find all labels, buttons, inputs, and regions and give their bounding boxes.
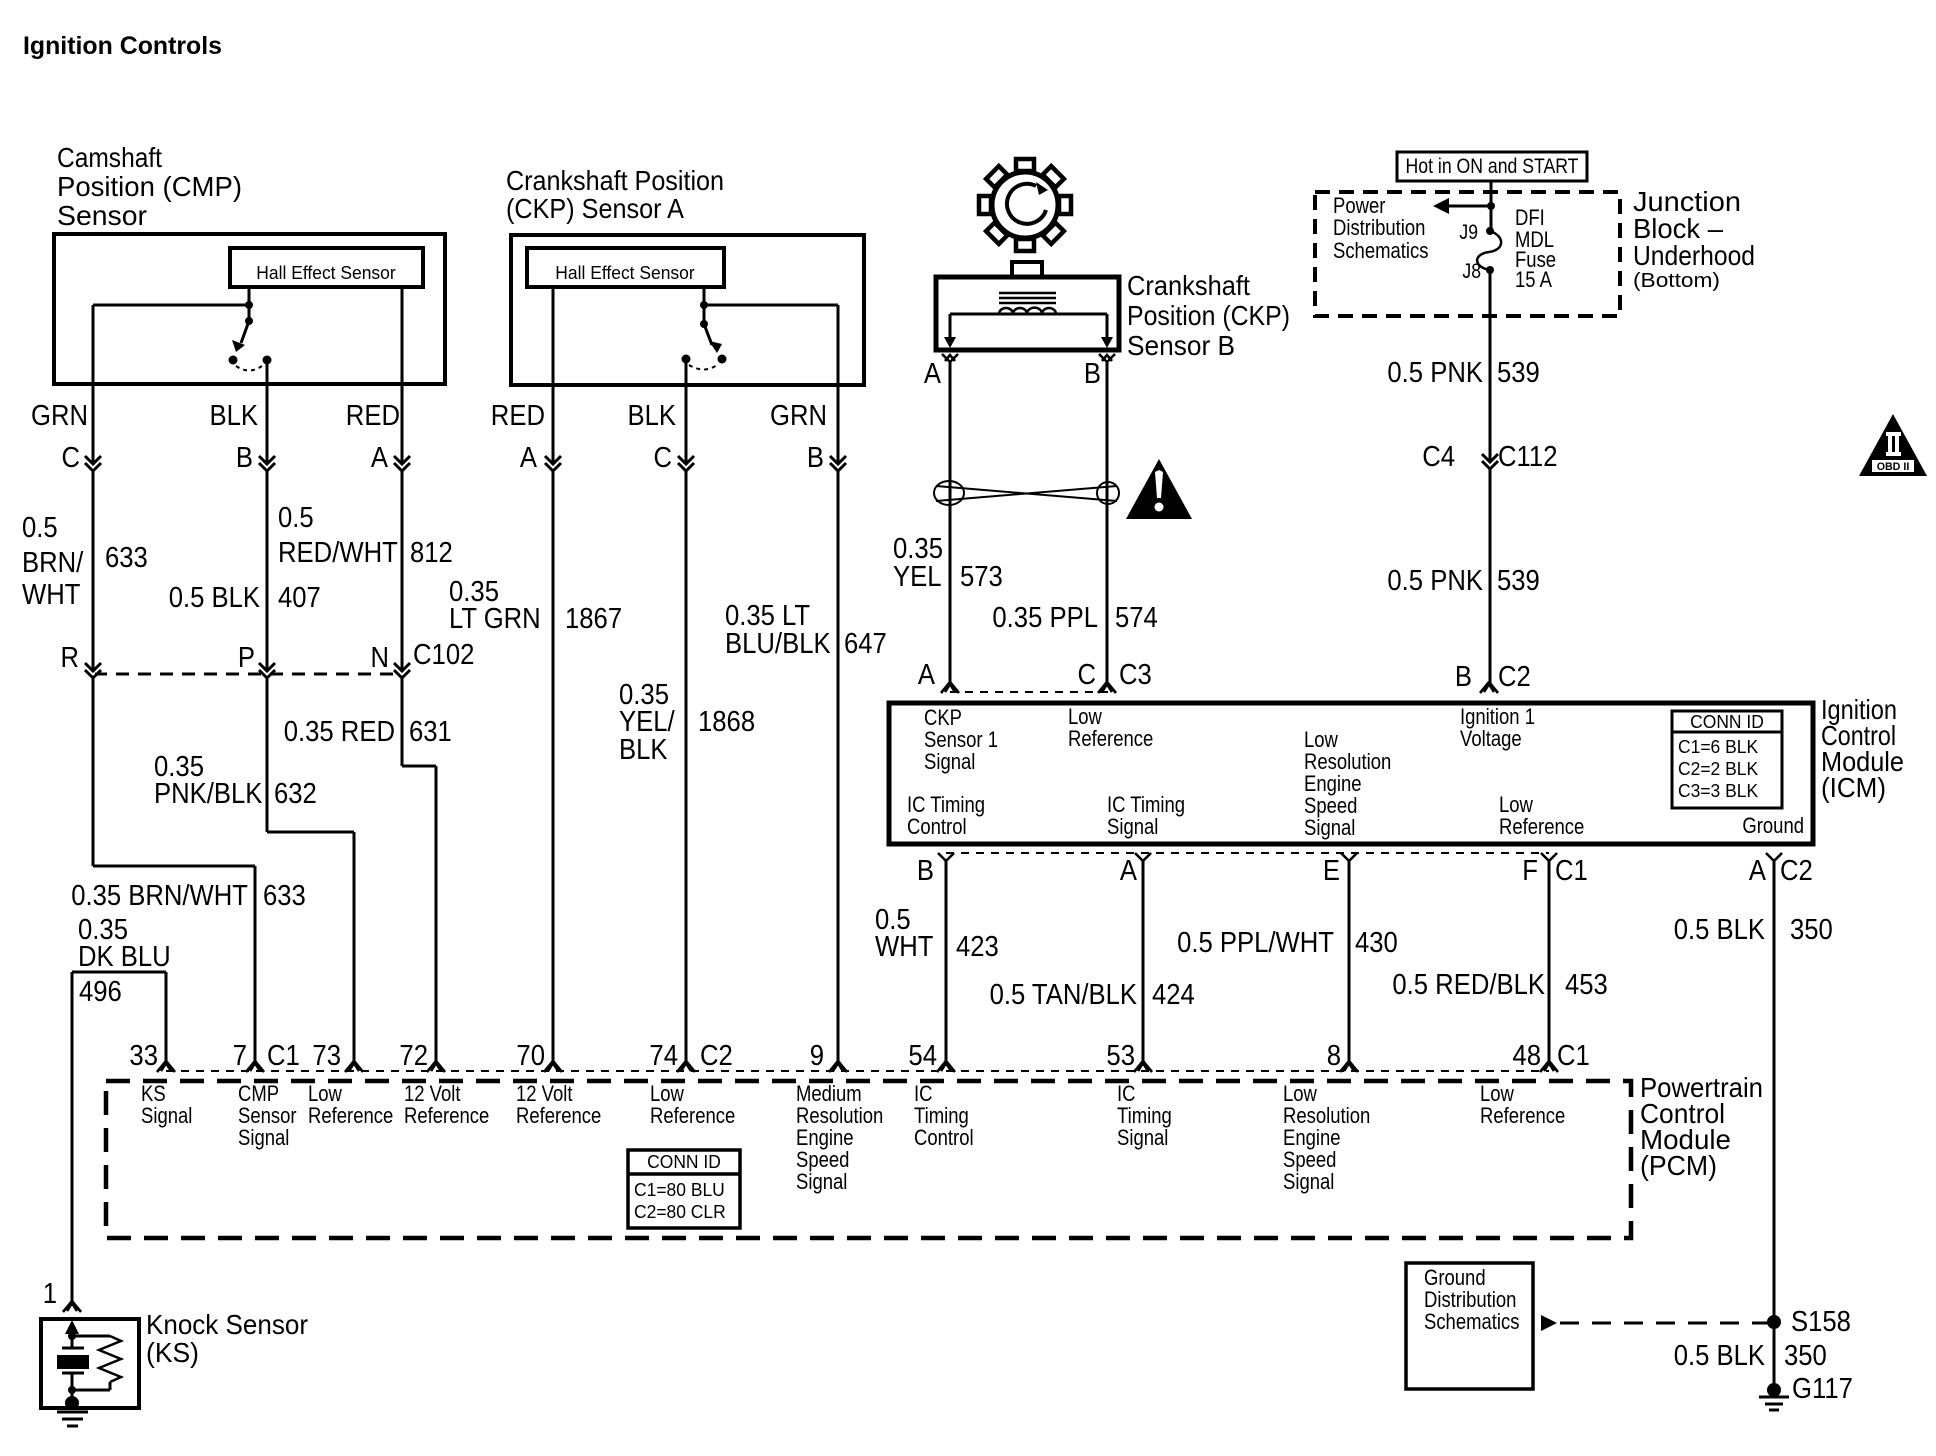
- svg-text:B: B: [917, 855, 934, 887]
- svg-text:A: A: [1749, 855, 1767, 887]
- svg-text:Reference: Reference: [516, 1103, 601, 1128]
- svg-text:C2: C2: [1498, 661, 1531, 693]
- svg-text:430: 430: [1355, 927, 1398, 959]
- svg-text:Hall Effect Sensor: Hall Effect Sensor: [555, 263, 694, 283]
- svg-text:0.5: 0.5: [278, 502, 314, 534]
- svg-text:C2=2 BLK: C2=2 BLK: [1678, 759, 1758, 779]
- svg-text:Reference: Reference: [404, 1103, 489, 1128]
- svg-text:0.5 TAN/BLK: 0.5 TAN/BLK: [990, 979, 1138, 1011]
- svg-text:Signal: Signal: [141, 1103, 192, 1128]
- svg-text:812: 812: [410, 537, 453, 569]
- svg-text:0.35 PPL: 0.35 PPL: [992, 602, 1098, 634]
- svg-text:CONN ID: CONN ID: [1690, 712, 1764, 732]
- svg-text:YEL: YEL: [893, 561, 942, 593]
- svg-text:632: 632: [274, 778, 317, 810]
- svg-text:C3=3 BLK: C3=3 BLK: [1678, 781, 1758, 801]
- svg-text:DK BLU: DK BLU: [78, 941, 171, 973]
- svg-text:BLK: BLK: [210, 400, 259, 432]
- svg-text:C2: C2: [700, 1040, 733, 1072]
- svg-text:0.35 RED: 0.35 RED: [284, 716, 395, 748]
- svg-text:Schematics: Schematics: [1333, 238, 1429, 263]
- svg-text:Signal: Signal: [1107, 814, 1158, 839]
- svg-text:J8: J8: [1462, 260, 1481, 283]
- svg-text:BLU/BLK: BLU/BLK: [725, 628, 831, 660]
- svg-text:0.5 PNK: 0.5 PNK: [1387, 357, 1483, 389]
- svg-text:0.5 BLK: 0.5 BLK: [1674, 1340, 1766, 1372]
- svg-text:Signal: Signal: [1304, 815, 1355, 840]
- svg-text:BLK: BLK: [628, 400, 677, 432]
- svg-text:Crankshaft: Crankshaft: [1127, 270, 1250, 301]
- svg-text:Reference: Reference: [1480, 1103, 1565, 1128]
- svg-text:WHT: WHT: [22, 579, 81, 611]
- svg-text:Camshaft: Camshaft: [57, 142, 162, 173]
- svg-text:Reference: Reference: [308, 1103, 393, 1128]
- svg-text:S158: S158: [1791, 1306, 1851, 1338]
- svg-text:R: R: [61, 642, 80, 674]
- svg-text:RED/WHT: RED/WHT: [278, 537, 398, 569]
- svg-text:Reference: Reference: [1068, 726, 1153, 751]
- svg-text:Sensor B: Sensor B: [1127, 330, 1235, 361]
- svg-text:574: 574: [1115, 602, 1158, 634]
- svg-text:E: E: [1323, 855, 1340, 887]
- svg-text:0.5: 0.5: [22, 512, 58, 544]
- svg-text:15 A: 15 A: [1515, 267, 1552, 292]
- svg-text:0.35 BRN/WHT: 0.35 BRN/WHT: [71, 880, 248, 912]
- svg-text:Ground: Ground: [1742, 813, 1804, 838]
- svg-text:C112: C112: [1498, 441, 1558, 473]
- svg-text:1867: 1867: [565, 603, 622, 635]
- svg-text:407: 407: [278, 582, 321, 614]
- svg-text:7: 7: [233, 1040, 247, 1072]
- svg-text:53: 53: [1106, 1040, 1135, 1072]
- svg-text:Signal: Signal: [796, 1169, 847, 1194]
- svg-text:Knock Sensor: Knock Sensor: [146, 1309, 308, 1340]
- svg-text:A: A: [520, 442, 538, 474]
- svg-text:B: B: [807, 442, 824, 474]
- svg-text:Underhood: Underhood: [1633, 240, 1755, 271]
- svg-text:C1: C1: [267, 1040, 300, 1072]
- svg-text:539: 539: [1497, 357, 1540, 389]
- svg-text:Position (CMP): Position (CMP): [57, 171, 242, 202]
- svg-text:(ICM): (ICM): [1821, 772, 1886, 803]
- svg-text:PNK/BLK: PNK/BLK: [154, 778, 263, 810]
- svg-text:54: 54: [908, 1040, 937, 1072]
- svg-text:Hall Effect Sensor: Hall Effect Sensor: [256, 263, 395, 283]
- svg-text:C3: C3: [1119, 659, 1152, 691]
- svg-text:C2=80 CLR: C2=80 CLR: [634, 1202, 726, 1222]
- svg-text:C1=6 BLK: C1=6 BLK: [1678, 737, 1758, 757]
- svg-text:0.5 BLK: 0.5 BLK: [1674, 914, 1766, 946]
- svg-text:0.5 PPL/WHT: 0.5 PPL/WHT: [1177, 927, 1334, 959]
- svg-text:Control: Control: [914, 1125, 974, 1150]
- svg-text:B: B: [1455, 661, 1472, 693]
- svg-text:73: 73: [312, 1040, 341, 1072]
- svg-text:Signal: Signal: [238, 1125, 289, 1150]
- svg-text:C: C: [1078, 659, 1097, 691]
- svg-text:(CKP) Sensor A: (CKP) Sensor A: [506, 193, 684, 224]
- svg-text:(Bottom): (Bottom): [1633, 270, 1720, 292]
- svg-text:70: 70: [516, 1040, 545, 1072]
- svg-text:GRN: GRN: [770, 400, 827, 432]
- svg-text:631: 631: [409, 716, 452, 748]
- svg-text:Schematics: Schematics: [1424, 1309, 1520, 1334]
- svg-text:B: B: [1084, 358, 1101, 390]
- svg-text:(KS): (KS): [146, 1337, 199, 1368]
- svg-text:Control: Control: [907, 814, 967, 839]
- svg-text:CONN ID: CONN ID: [647, 1152, 721, 1172]
- svg-text:B: B: [236, 442, 253, 474]
- svg-text:WHT: WHT: [875, 931, 934, 963]
- svg-text:Signal: Signal: [1283, 1169, 1334, 1194]
- svg-text:J9: J9: [1459, 221, 1478, 244]
- svg-text:350: 350: [1790, 914, 1833, 946]
- svg-text:A: A: [924, 358, 942, 390]
- svg-text:33: 33: [129, 1040, 158, 1072]
- svg-text:72: 72: [399, 1040, 428, 1072]
- svg-text:P: P: [238, 642, 255, 674]
- svg-text:C: C: [654, 442, 673, 474]
- svg-text:GRN: GRN: [31, 400, 88, 432]
- svg-text:1868: 1868: [698, 706, 755, 738]
- svg-text:C1: C1: [1557, 1040, 1590, 1072]
- svg-text:633: 633: [263, 880, 306, 912]
- svg-text:LT GRN: LT GRN: [449, 603, 541, 635]
- svg-text:C: C: [62, 442, 81, 474]
- svg-text:Sensor: Sensor: [57, 200, 147, 231]
- svg-text:9: 9: [810, 1040, 824, 1072]
- svg-text:C2: C2: [1780, 855, 1813, 887]
- svg-text:Voltage: Voltage: [1460, 726, 1522, 751]
- svg-text:647: 647: [844, 628, 887, 660]
- svg-text:Crankshaft Position: Crankshaft Position: [506, 165, 724, 196]
- svg-text:0.5 BLK: 0.5 BLK: [169, 582, 261, 614]
- svg-text:0.5 PNK: 0.5 PNK: [1387, 565, 1483, 597]
- svg-text:Position (CKP): Position (CKP): [1127, 300, 1290, 331]
- svg-text:633: 633: [105, 542, 148, 574]
- svg-text:A: A: [371, 442, 389, 474]
- svg-text:0.5 RED/BLK: 0.5 RED/BLK: [1392, 969, 1545, 1001]
- svg-text:OBD II: OBD II: [1877, 461, 1910, 473]
- svg-text:Signal: Signal: [1117, 1125, 1168, 1150]
- svg-text:C1: C1: [1555, 855, 1588, 887]
- svg-text:Ignition Controls: Ignition Controls: [23, 32, 222, 60]
- svg-text:G117: G117: [1792, 1373, 1853, 1405]
- svg-text:1: 1: [43, 1278, 57, 1310]
- svg-text:F: F: [1522, 855, 1538, 887]
- svg-text:573: 573: [960, 561, 1003, 593]
- svg-text:423: 423: [956, 931, 999, 963]
- svg-text:RED: RED: [346, 400, 400, 432]
- svg-text:BLK: BLK: [619, 734, 668, 766]
- svg-text:(PCM): (PCM): [1640, 1150, 1717, 1181]
- svg-text:C1=80 BLU: C1=80 BLU: [634, 1180, 725, 1200]
- svg-text:RED: RED: [491, 400, 545, 432]
- svg-text:A: A: [1120, 855, 1138, 887]
- svg-text:74: 74: [649, 1040, 678, 1072]
- svg-text:BRN/: BRN/: [22, 547, 84, 579]
- svg-text:A: A: [918, 659, 936, 691]
- svg-text:N: N: [371, 642, 390, 674]
- svg-text:453: 453: [1565, 969, 1608, 1001]
- svg-text:Reference: Reference: [1499, 814, 1584, 839]
- svg-text:Distribution: Distribution: [1333, 215, 1425, 240]
- svg-text:Signal: Signal: [924, 749, 975, 774]
- svg-text:539: 539: [1497, 565, 1540, 597]
- svg-text:C4: C4: [1422, 441, 1455, 473]
- svg-text:Reference: Reference: [650, 1103, 735, 1128]
- svg-text:496: 496: [79, 976, 122, 1008]
- svg-text:48: 48: [1512, 1040, 1541, 1072]
- svg-text:8: 8: [1327, 1040, 1341, 1072]
- svg-text:C102: C102: [413, 639, 474, 671]
- svg-text:Hot in ON and START: Hot in ON and START: [1406, 155, 1579, 178]
- svg-text:424: 424: [1152, 979, 1195, 1011]
- svg-text:350: 350: [1784, 1340, 1827, 1372]
